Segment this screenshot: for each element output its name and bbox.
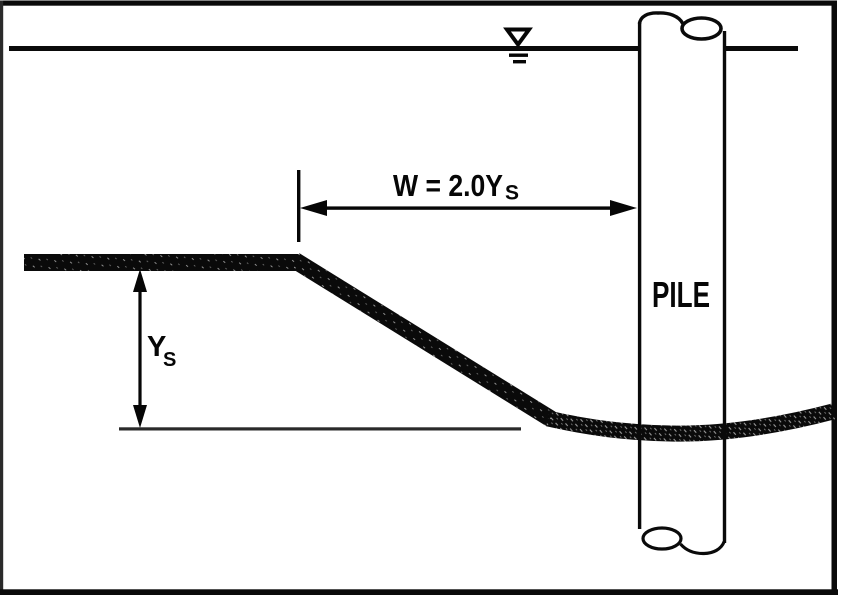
svg-text:PILE: PILE (652, 274, 710, 315)
svg-text:W = 2.0Y: W = 2.0Y (393, 168, 503, 203)
svg-text:S: S (505, 182, 519, 205)
svg-text:S: S (163, 349, 176, 371)
